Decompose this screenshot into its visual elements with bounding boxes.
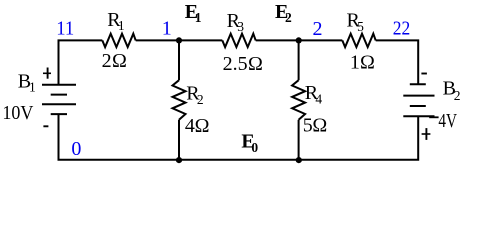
wire top between R1 and R3 through node 1 [136,39,223,41]
B2 plus sign [422,133,431,135]
svg-text:Ω: Ω [195,115,210,137]
svg-text:Ω: Ω [112,50,127,72]
B1 minus sign [43,125,48,127]
battery B2 plate short [410,105,426,107]
svg-text:10V: 10V [2,102,33,124]
wire R4 down to bottom rail [298,120,300,160]
battery B1 plate long top (+) [42,84,76,86]
wire node 2 branch down to R4 [298,40,300,80]
resistor R4 zigzag (vertical) [292,80,305,120]
wire top-right: to node 22 corner down to battery B2 [376,40,419,84]
wire R2 down to bottom rail [178,120,180,160]
svg-text:2: 2 [285,10,292,25]
svg-text:0: 0 [71,138,81,160]
resistor R5 zigzag [342,34,375,47]
svg-text:4: 4 [185,115,195,137]
svg-text:1: 1 [118,18,125,33]
svg-text:1: 1 [195,10,202,25]
svg-text:2: 2 [454,88,461,103]
svg-text:3: 3 [237,19,244,34]
svg-text:1: 1 [162,17,172,39]
B1 plus sign [43,72,51,74]
svg-text:4: 4 [315,91,322,106]
resistor R2 zigzag (vertical) [173,80,186,120]
junction dot bottom right (R4 to rail) [296,157,302,163]
svg-text:5: 5 [303,114,313,136]
wire node 1 branch down to R2 [178,40,180,80]
svg-text:0: 0 [251,140,258,155]
svg-text:Ω: Ω [248,53,263,75]
resistor R1 zigzag [102,34,135,47]
svg-text:1: 1 [350,52,360,74]
minus of -4V label [429,116,438,118]
battery B2 plate long bottom (+) [403,115,434,117]
node 1 junction dot top [176,37,182,43]
svg-text:Ω: Ω [312,114,327,136]
battery B1 plate short bottom (-) [51,113,67,115]
B2 minus sign [421,73,427,75]
battery B2 plate long [403,95,434,97]
svg-text:1: 1 [29,79,36,94]
svg-text:5: 5 [357,19,364,34]
battery B1 plate long [42,103,76,105]
wire top-left: node 11 corner down to battery B1 [59,40,103,84]
svg-text:2: 2 [197,92,204,107]
resistor R3 zigzag [222,34,255,47]
battery B2 plate short top (-) [410,83,426,85]
wire bottom rail from B1 minus to B2 plus (node 0 / E0 rail) [59,114,419,160]
battery B1 plate short [51,94,67,96]
svg-text:22: 22 [393,18,411,40]
svg-text:4V: 4V [438,110,457,132]
wire top between R3 and R5 through node 2 [256,39,343,41]
svg-text:2: 2 [102,50,112,72]
svg-text:2.5: 2.5 [223,53,248,75]
junction dot bottom left (R2 to rail) [176,157,182,163]
svg-text:11: 11 [56,18,74,40]
svg-text:Ω: Ω [360,52,375,74]
node 2 junction dot top [296,37,302,43]
svg-text:2: 2 [313,18,323,40]
